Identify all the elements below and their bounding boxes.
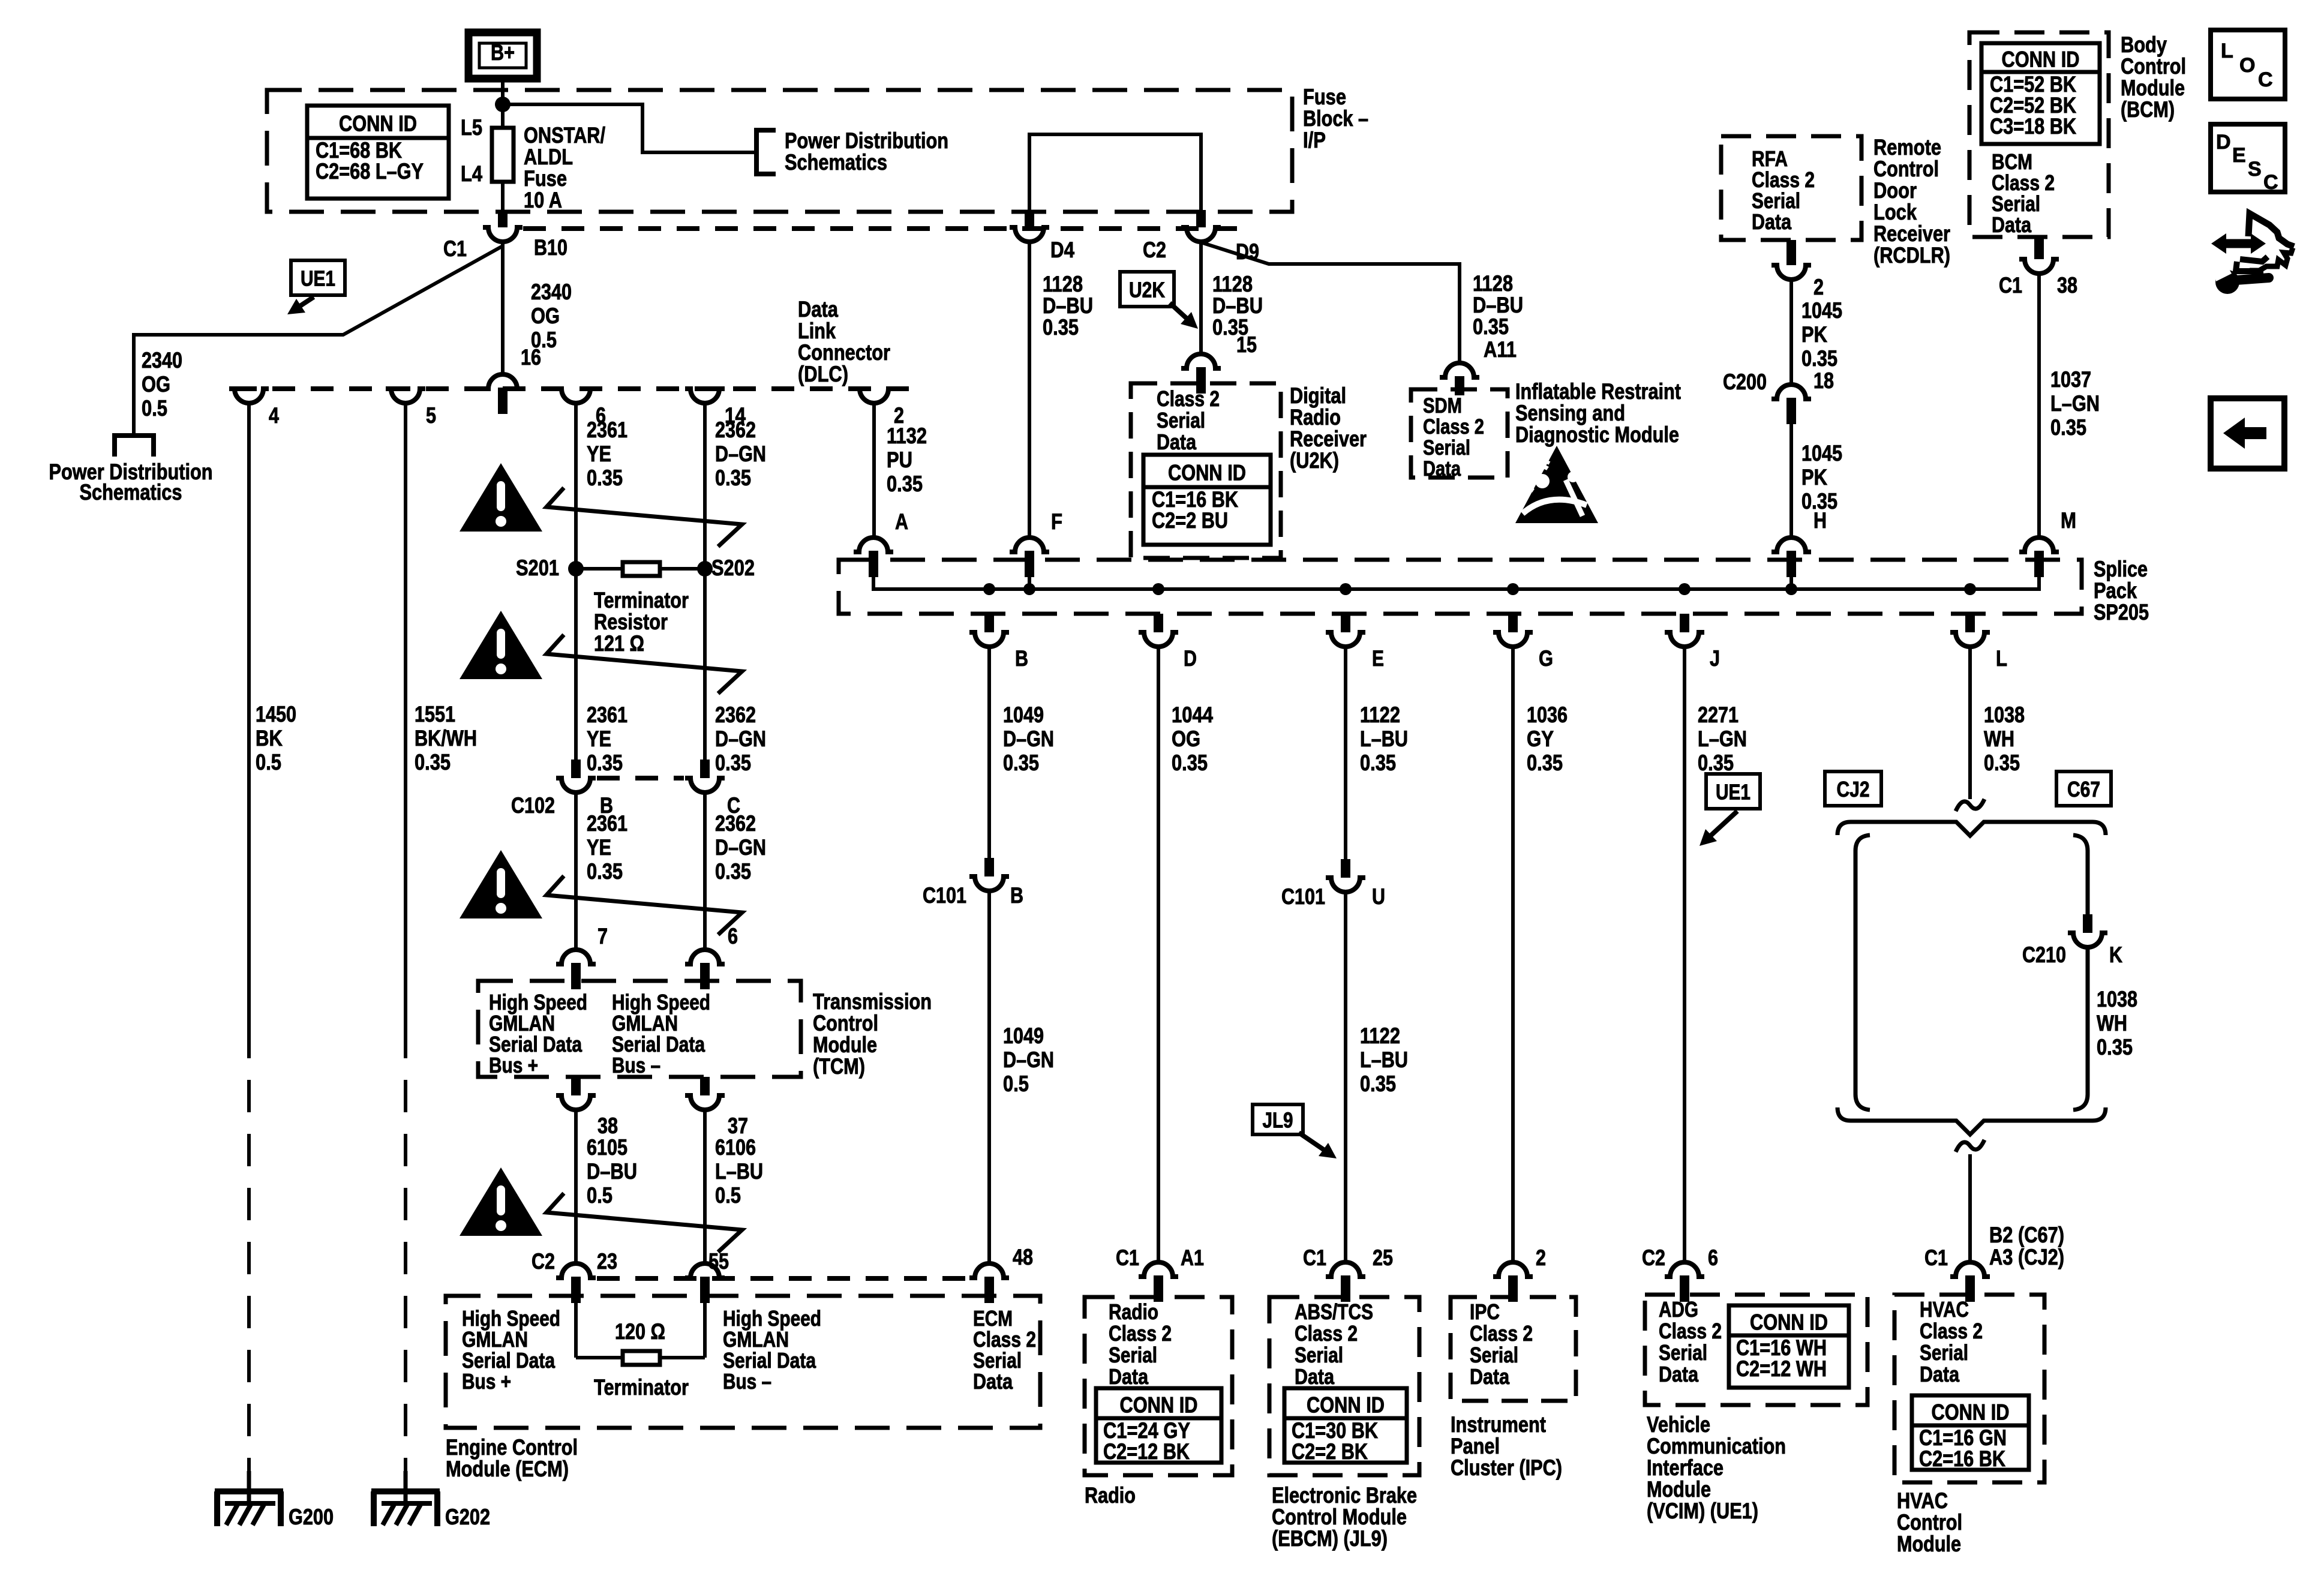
wire 1044 OG 0.35 (splice D to Radio) [1157, 647, 1160, 1262]
svg-text:Module: Module [1647, 1477, 1711, 1502]
svg-text:U: U [1372, 884, 1385, 909]
svg-text:L–BU: L–BU [1360, 727, 1408, 751]
label Electronic Brake Control Module (EBCM) (JL9) [1272, 1483, 1417, 1551]
svg-text:Data: Data [1920, 1362, 1960, 1386]
connector C1 pin 38 at BCM [2034, 237, 2044, 259]
svg-text:Block –: Block – [1303, 106, 1368, 131]
svg-text:Bus +: Bus + [489, 1053, 538, 1077]
svg-text:Serial: Serial [1659, 1340, 1707, 1365]
svg-text:WH: WH [2097, 1011, 2127, 1035]
svg-text:0.35: 0.35 [1003, 751, 1039, 775]
svg-text:Terminator: Terminator [594, 1375, 689, 1400]
DLC pin 5 connector [386, 389, 425, 403]
svg-text:L–BU: L–BU [1360, 1047, 1408, 1072]
svg-text:B: B [1015, 646, 1028, 671]
module box SDM Class 2 Serial Data (dashed) [1411, 389, 1508, 478]
svg-text:0.5: 0.5 [587, 1183, 612, 1208]
svg-text:Panel: Panel [1451, 1434, 1500, 1458]
svg-text:Data: Data [1470, 1364, 1510, 1389]
fuse F: ONSTAR/ALDL Fuse 10 A [501, 104, 505, 128]
twisted-pair symbol 3 [547, 876, 742, 935]
wire 1122 L-BU 0.35 (C101 to EBCM) [1344, 892, 1347, 1262]
connector table CONN ID (HVAC) C1=16 GN C2=16 BK [1912, 1395, 2029, 1470]
svg-text:A11: A11 [1484, 337, 1517, 362]
connector C2 pin 6 at VCIM [1665, 1262, 1704, 1277]
labels B2 (C67) / A3 (CJ2) [1989, 1223, 2064, 1269]
TCM output pin 38 connector [571, 1077, 581, 1095]
svg-text:U2K: U2K [1129, 278, 1165, 302]
svg-text:ADG: ADG [1659, 1297, 1698, 1322]
svg-text:OG: OG [531, 304, 560, 328]
svg-text:Control Module: Control Module [1272, 1505, 1407, 1529]
svg-text:Schematics: Schematics [80, 480, 182, 505]
svg-text:1049: 1049 [1003, 1023, 1044, 1048]
svg-text:Data: Data [1157, 430, 1197, 454]
svg-text:Instrument: Instrument [1451, 1412, 1546, 1437]
svg-text:D4: D4 [1050, 238, 1074, 262]
TCM connector pin 6 [685, 950, 725, 964]
svg-text:Digital: Digital [1290, 383, 1346, 408]
connector face dashed line at ECM [597, 1276, 971, 1281]
wire 1551 BK/WH 0.35 (DLC 5 to G202) [404, 403, 407, 1026]
icon back-arrow box [2211, 398, 2284, 469]
svg-text:OG: OG [142, 372, 170, 397]
svg-text:Control: Control [1897, 1510, 1962, 1535]
svg-text:0.35: 0.35 [1801, 489, 1837, 514]
module box Fuse Block - I/P (dashed) [267, 90, 1292, 212]
splice connector B (bottom) [984, 614, 994, 632]
svg-text:Class 2: Class 2 [1109, 1321, 1172, 1346]
wire D9 diagonal to SDM [1201, 242, 1460, 362]
svg-text:Data: Data [1659, 1362, 1699, 1386]
svg-text:Data: Data [1992, 212, 2032, 237]
svg-text:55: 55 [708, 1249, 729, 1274]
svg-text:0.35: 0.35 [2050, 415, 2086, 440]
svg-text:JL9: JL9 [1263, 1108, 1293, 1133]
svg-text:Receiver: Receiver [1873, 221, 1950, 246]
svg-text:D–GN: D–GN [1003, 727, 1054, 751]
DLC pin 16 connector [483, 374, 523, 389]
wire break symbol (top) [1956, 799, 1984, 811]
svg-text:ALDL: ALDL [524, 145, 573, 169]
svg-text:0.35: 0.35 [1527, 751, 1563, 775]
inline connector C210 pin K [2083, 914, 2092, 933]
svg-text:CONN ID: CONN ID [2002, 47, 2080, 72]
svg-text:Data: Data [1423, 457, 1461, 481]
module box Digital Radio Receiver U2K (dashed) [1131, 383, 1281, 558]
svg-text:Serial: Serial [1470, 1343, 1518, 1367]
svg-text:HVAC: HVAC [1920, 1297, 1969, 1322]
module connector face line DLC (dashed) [234, 386, 909, 391]
splice connector G (bottom) [1508, 614, 1518, 632]
svg-text:Serial: Serial [1109, 1343, 1157, 1367]
svg-text:Interface: Interface [1647, 1455, 1724, 1480]
inline connector C200 pin 18 [1771, 385, 1811, 399]
wire 1045 PK 0.35 (C200 to splice H) [1789, 420, 1793, 538]
module box Splice Pack SP205 (dashed) [839, 560, 2082, 614]
svg-text:B2 (C67): B2 (C67) [1989, 1223, 2064, 1247]
ECM connector pin 48 [969, 1263, 1009, 1278]
wire 1450 BK 0.5 (DLC 4 to G200) [247, 403, 251, 1026]
svg-text:E: E [2232, 144, 2246, 167]
pin label L4 [461, 161, 482, 186]
svg-text:5: 5 [426, 403, 436, 428]
module box Radio (dashed) [1085, 1297, 1232, 1475]
svg-text:I/P: I/P [1303, 128, 1326, 152]
svg-text:C210: C210 [2022, 942, 2066, 967]
wire 1128 D-BU 0.35 (C2 down to U2K 15) [1199, 242, 1203, 354]
svg-text:Electronic Brake: Electronic Brake [1272, 1483, 1417, 1508]
svg-text:48: 48 [1013, 1245, 1033, 1269]
svg-text:C102: C102 [511, 793, 555, 818]
svg-text:CONN ID: CONN ID [1932, 1400, 2010, 1425]
ground G200 [247, 1471, 251, 1503]
svg-text:CONN ID: CONN ID [1307, 1393, 1385, 1418]
svg-text:S: S [2248, 158, 2262, 181]
DLC pin 6 connector [556, 389, 596, 403]
svg-text:Cluster (IPC): Cluster (IPC) [1451, 1455, 1562, 1480]
svg-text:0.35: 0.35 [887, 472, 923, 496]
svg-text:C1: C1 [443, 236, 467, 261]
svg-text:Control: Control [2121, 54, 2186, 79]
svg-text:0.5: 0.5 [142, 396, 167, 421]
svg-text:IPC: IPC [1470, 1299, 1500, 1324]
svg-text:121 Ω: 121 Ω [594, 631, 644, 656]
svg-text:L5: L5 [461, 115, 482, 140]
svg-text:1036: 1036 [1527, 703, 1568, 727]
svg-text:GY: GY [1527, 727, 1554, 751]
svg-text:C2=68 L–GY: C2=68 L–GY [316, 159, 424, 184]
junction dot splice bus x=1716 [1023, 583, 1035, 595]
svg-text:G202: G202 [445, 1505, 490, 1529]
svg-text:0.5: 0.5 [1003, 1071, 1029, 1096]
label Splice Pack SP205 [2094, 557, 2149, 625]
svg-text:C: C [2263, 171, 2278, 194]
wire 1049 D-GN 0.5 (C101 to ECM 48) [987, 891, 991, 1263]
svg-text:Sensing and: Sensing and [1515, 401, 1625, 425]
svg-text:C101: C101 [1281, 884, 1325, 909]
svg-text:0.35: 0.35 [1698, 751, 1734, 775]
svg-text:D–GN: D–GN [715, 442, 766, 466]
splice connector H (top) [1771, 538, 1811, 552]
svg-text:BK: BK [256, 726, 283, 751]
connector C1/A1 at Radio [1139, 1262, 1178, 1277]
label Body Control Module (BCM) [2121, 32, 2186, 122]
svg-text:C2: C2 [1143, 238, 1166, 262]
svg-text:1128: 1128 [1212, 272, 1253, 296]
svg-text:1038: 1038 [1984, 703, 2025, 727]
svg-text:C2=12 WH: C2=12 WH [1736, 1356, 1827, 1381]
svg-text:1551: 1551 [415, 702, 455, 727]
junction dot splice bus x=1649 [983, 583, 995, 595]
svg-text:4: 4 [269, 403, 279, 428]
svg-text:PK: PK [1801, 465, 1827, 490]
svg-text:0.35: 0.35 [1360, 751, 1396, 775]
svg-text:Class 2: Class 2 [1920, 1319, 1983, 1343]
svg-text:Fuse: Fuse [1303, 85, 1346, 109]
svg-text:6106: 6106 [715, 1135, 756, 1160]
junction dot splice bus x=1931 [1152, 583, 1164, 595]
svg-text:2361: 2361 [587, 418, 627, 442]
icon DESC box [2211, 124, 2285, 192]
svg-text:YE: YE [587, 835, 611, 860]
svg-text:UE1: UE1 [301, 266, 335, 291]
svg-text:L–GN: L–GN [1698, 727, 1747, 751]
svg-text:1044: 1044 [1172, 703, 1213, 727]
module box VCIM / ADG (dashed) [1645, 1295, 1867, 1405]
DLC pin 14 connector [685, 389, 725, 403]
svg-text:2340: 2340 [142, 348, 182, 373]
label Instrument Panel Cluster (IPC) [1451, 1412, 1562, 1480]
svg-text:CJ2: CJ2 [1837, 777, 1870, 801]
svg-text:Module: Module [2121, 76, 2185, 100]
svg-text:D: D [1184, 646, 1197, 671]
svg-text:Class 2: Class 2 [1659, 1319, 1722, 1343]
svg-text:Control: Control [1873, 157, 1939, 181]
off-page reference bracket (left) [115, 436, 154, 457]
svg-text:0.35: 0.35 [715, 466, 751, 490]
option callout UE1 (VCIM) [1706, 774, 1760, 809]
svg-text:0.35: 0.35 [1984, 751, 2020, 775]
connector table CONN ID (EBCM) C1=30 BK C2=2 BK [1284, 1388, 1407, 1463]
svg-text:Door: Door [1873, 178, 1917, 203]
svg-text:Radio: Radio [1290, 405, 1341, 430]
label Data Link Connector (DLC) [798, 297, 890, 386]
wire 1128 D-BU 0.35 (D4 to splice A? no: D4 down to F) [1028, 242, 1031, 538]
svg-text:(VCIM) (UE1): (VCIM) (UE1) [1647, 1499, 1758, 1523]
option callout UE1 (top) [291, 260, 345, 295]
svg-text:Serial: Serial [1157, 408, 1205, 433]
connector C1 at HVAC [1950, 1262, 1990, 1277]
splice connector D (bottom) [1154, 614, 1163, 632]
svg-text:15: 15 [1236, 332, 1257, 357]
svg-text:Data: Data [1752, 209, 1792, 234]
icon LOC box [2211, 30, 2285, 99]
wire 1036 GY 0.35 (splice G to IPC) [1511, 647, 1515, 1262]
svg-text:0.35: 0.35 [715, 751, 751, 775]
svg-text:7: 7 [597, 924, 608, 948]
pin label L5 [461, 115, 482, 140]
connector pin 2 at IPC [1493, 1262, 1533, 1277]
svg-text:C67: C67 [2067, 777, 2100, 801]
inline connector C101 pin B [984, 858, 994, 876]
svg-text:2340: 2340 [531, 280, 572, 304]
svg-text:1128: 1128 [1473, 271, 1513, 296]
svg-text:OG: OG [1172, 727, 1200, 751]
svg-text:B: B [1010, 883, 1023, 908]
svg-text:C2=2 BU: C2=2 BU [1152, 508, 1228, 533]
module box Body Control Module BCM (dashed) [1969, 32, 2109, 237]
connector C1/B10 at fuse block output [498, 210, 508, 227]
label 2361 YE 0.35 (mid) [587, 703, 627, 775]
svg-text:C101: C101 [923, 883, 966, 908]
svg-text:1037: 1037 [2050, 367, 2091, 392]
wire 1045 PK 0.35 (RFA to C200) [1789, 280, 1793, 385]
junction dot splice bus x=3284 [1964, 583, 1976, 595]
svg-text:D: D [2216, 131, 2231, 154]
svg-text:B+: B+ [491, 40, 515, 65]
svg-text:A3 (CJ2): A3 (CJ2) [1989, 1245, 2064, 1269]
wire fuse block internal bus to D4 and D9 [1029, 134, 1201, 210]
svg-text:ONSTAR/: ONSTAR/ [524, 123, 605, 148]
svg-text:Class 2: Class 2 [1423, 415, 1484, 439]
svg-text:Data: Data [1109, 1364, 1149, 1389]
svg-text:Communication: Communication [1647, 1434, 1786, 1458]
svg-text:Class 2: Class 2 [1157, 386, 1220, 411]
svg-text:WH: WH [1984, 727, 2014, 751]
svg-text:D–BU: D–BU [587, 1159, 637, 1184]
wire 2340 OG 0.5 to DLC pin 16 [501, 242, 505, 374]
twisted-pair symbol 1 [547, 488, 742, 547]
connector table CONN ID (VCIM) C1=16 WH C2=12 WH [1729, 1305, 1849, 1388]
arrow JL9 to wire [1299, 1133, 1332, 1155]
wire 6105 D-BU 0.5 [574, 1110, 578, 1263]
connector pin 15 at U2K [1181, 354, 1221, 368]
svg-text:YE: YE [587, 727, 611, 751]
svg-text:120 Ω: 120 Ω [615, 1319, 665, 1344]
label Digital Radio Receiver (U2K) [1290, 383, 1367, 473]
svg-text:M: M [2061, 508, 2076, 533]
option wire right (C67 variant) [2073, 835, 2088, 914]
wire 6106 L-BU 0.5 [703, 1110, 707, 1263]
wire 1049 D-GN 0.35 (splice B down) [987, 647, 991, 858]
svg-text:Radio: Radio [1109, 1299, 1158, 1324]
splice connector A (top) [854, 538, 893, 552]
wire 2362 D-GN 0.35 (C102 C to TCM 6) [703, 792, 707, 950]
junction dot at B+ feed [495, 97, 511, 112]
svg-text:(TCM): (TCM) [813, 1054, 865, 1079]
svg-text:Schematics: Schematics [785, 150, 887, 175]
bus wire inside splice pack [873, 578, 2039, 589]
svg-text:2: 2 [1536, 1245, 1546, 1270]
module box HVAC (dashed) [1894, 1295, 2044, 1482]
svg-text:1122: 1122 [1360, 1023, 1400, 1048]
svg-text:25: 25 [1373, 1245, 1393, 1270]
svg-text:Module: Module [1897, 1532, 1961, 1556]
svg-text:PU: PU [887, 448, 912, 472]
svg-text:Receiver: Receiver [1290, 427, 1367, 451]
svg-text:Body: Body [2121, 32, 2167, 57]
label Engine Control Module (ECM) [446, 1435, 578, 1481]
svg-text:6: 6 [728, 924, 738, 948]
svg-text:C1: C1 [1999, 273, 2022, 298]
svg-text:0.35: 0.35 [587, 859, 623, 884]
svg-text:J: J [1710, 646, 1720, 671]
svg-text:6: 6 [1708, 1245, 1718, 1270]
wire 2362 D-GN 0.35 (DLC 14 down) [703, 403, 707, 760]
svg-text:2362: 2362 [715, 418, 756, 442]
splice S202 [697, 561, 713, 577]
svg-text:Vehicle: Vehicle [1647, 1412, 1710, 1437]
svg-text:2361: 2361 [587, 703, 627, 727]
svg-text:YE: YE [587, 442, 611, 466]
wire 1132 PU 0.35 (DLC 2 to splice A) [872, 403, 876, 538]
svg-text:CONN ID: CONN ID [339, 112, 417, 136]
svg-text:1045: 1045 [1801, 441, 1842, 466]
airbag warning triangle [1515, 446, 1598, 523]
svg-text:10 A: 10 A [524, 188, 562, 212]
warning triangle 1 [460, 463, 542, 532]
svg-text:L: L [2221, 40, 2233, 62]
svg-text:Class 2: Class 2 [1295, 1321, 1358, 1346]
option callout U2K [1120, 272, 1174, 307]
label Transmission Control Module (TCM) [813, 989, 932, 1079]
splice connector M (top) [2019, 538, 2059, 552]
svg-text:O: O [2239, 54, 2255, 77]
svg-text:C2: C2 [532, 1249, 555, 1274]
svg-text:23: 23 [597, 1249, 617, 1274]
svg-text:F: F [1051, 509, 1062, 534]
svg-text:(BCM): (BCM) [2121, 97, 2175, 122]
svg-text:Control: Control [813, 1011, 878, 1035]
svg-text:L4: L4 [461, 161, 482, 186]
warning triangle 4 [460, 1167, 542, 1236]
wire 2361 YE 0.35 (C102 B to TCM 7) [574, 792, 578, 950]
label Vehicle Communication Interface Module (VCIM) (UE1) [1647, 1412, 1786, 1523]
svg-text:CONN ID: CONN ID [1168, 461, 1246, 485]
svg-text:1450: 1450 [256, 702, 296, 727]
svg-text:Module (ECM): Module (ECM) [446, 1457, 569, 1481]
twisted-pair symbol 2 [547, 635, 742, 694]
svg-text:Connector: Connector [798, 340, 890, 365]
svg-text:0.35: 0.35 [2097, 1035, 2133, 1059]
label Radio [1085, 1483, 1136, 1508]
inline connector C102 pin C [700, 760, 710, 778]
wire 2361 YE 0.35 (DLC 6 down) [574, 403, 578, 760]
svg-text:(DLC): (DLC) [798, 362, 848, 386]
connector D4 [1025, 210, 1034, 227]
connector face dashed C102 [597, 776, 684, 781]
module box EBCM (dashed) [1269, 1297, 1419, 1475]
svg-text:(EBCM) (JL9): (EBCM) (JL9) [1272, 1526, 1388, 1551]
svg-text:Remote: Remote [1873, 135, 1941, 160]
svg-text:G200: G200 [289, 1505, 334, 1529]
warning triangle 3 [460, 850, 542, 918]
svg-text:HVAC: HVAC [1897, 1488, 1948, 1513]
power node B+ [469, 32, 537, 79]
svg-text:BK/WH: BK/WH [415, 726, 477, 751]
svg-text:1122: 1122 [1360, 703, 1400, 727]
connector C2/D9 [1196, 210, 1206, 227]
label 1038 WH 0.35 (C210 branch) [2097, 987, 2137, 1059]
svg-text:Class 2: Class 2 [1470, 1321, 1533, 1346]
svg-text:Bus +: Bus + [462, 1369, 511, 1394]
svg-text:Diagnostic Module: Diagnostic Module [1515, 422, 1679, 447]
splice connector J (bottom) [1680, 614, 1689, 632]
svg-text:PK: PK [1801, 322, 1827, 347]
connector A11 at SDM [1440, 363, 1479, 377]
wire 1037 L-GN 0.35 (BCM to splice M) [2037, 274, 2041, 538]
wire 1038 WH 0.35 (splice L down) [1968, 647, 1972, 799]
svg-text:2362: 2362 [715, 811, 756, 836]
option brace (bottom) [1837, 1107, 2106, 1134]
svg-text:0.35: 0.35 [1172, 751, 1208, 775]
svg-text:0.5: 0.5 [715, 1183, 741, 1208]
label Remote Control Door Lock Receiver (RCDLR) [1873, 135, 1950, 268]
arrow U2K to wire 15 [1170, 303, 1194, 325]
svg-text:D–GN: D–GN [715, 727, 766, 751]
svg-text:Engine Control: Engine Control [446, 1435, 578, 1460]
svg-text:16: 16 [521, 345, 541, 370]
svg-text:C2=16 BK: C2=16 BK [1919, 1446, 2005, 1471]
svg-text:C1: C1 [1116, 1245, 1139, 1270]
svg-text:0.35: 0.35 [1801, 346, 1837, 371]
svg-text:D–BU: D–BU [1043, 293, 1093, 318]
splice S201 [568, 561, 584, 577]
svg-text:0.35: 0.35 [1473, 314, 1509, 339]
svg-text:C2=2 BK: C2=2 BK [1292, 1439, 1368, 1464]
label Power Distribution Schematics (left) [49, 460, 213, 505]
